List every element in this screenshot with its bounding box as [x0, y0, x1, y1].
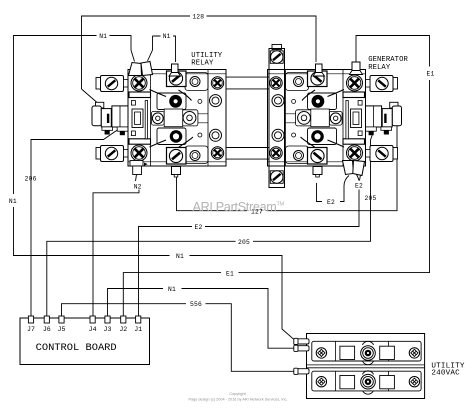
strap top	[226, 77, 269, 89]
svg-text:Page design (c) 2004 - 2016 by: Page design (c) 2004 - 2016 by ARI Netwo…	[189, 398, 288, 402]
svg-text:RELAY: RELAY	[191, 60, 214, 68]
control board	[20, 318, 150, 365]
svg-text:240VAC: 240VAC	[431, 369, 460, 377]
wire E1	[123, 36, 429, 317]
generator relay bottom lug pair	[343, 161, 365, 176]
svg-text:GENERATOR: GENERATOR	[368, 56, 408, 64]
strap bottom	[226, 148, 269, 160]
lug row1 lower	[294, 345, 309, 351]
utility relay N2 lug	[130, 161, 143, 175]
svg-text:J6: J6	[43, 326, 51, 333]
terminal bolt row1	[361, 346, 376, 361]
svg-text:206: 206	[25, 176, 37, 183]
terminal screw row2 left	[316, 377, 326, 387]
wire 206	[31, 129, 120, 317]
svg-text:205: 205	[365, 195, 377, 202]
svg-text:ARI PartStreamTM: ARI PartStreamTM	[193, 200, 285, 214]
svg-text:J4: J4	[89, 326, 97, 333]
svg-text:J1: J1	[134, 326, 142, 333]
wire 556	[62, 304, 297, 372]
wire N1 to J3	[108, 289, 297, 349]
terminal bolt row2	[361, 374, 376, 389]
svg-text:J5: J5	[58, 326, 66, 333]
utility relay top lug pair	[129, 62, 153, 76]
svg-text:J7: J7	[27, 326, 35, 333]
svg-text:Copyright: Copyright	[229, 392, 246, 396]
svg-text:556: 556	[190, 301, 202, 308]
bus bar bottom screw	[271, 171, 283, 183]
svg-text:N2: N2	[134, 183, 142, 190]
wire N1 second	[148, 36, 176, 62]
lug row2	[294, 368, 309, 374]
lug row1 upper	[294, 338, 309, 344]
svg-text:CONTROL BOARD: CONTROL BOARD	[36, 342, 117, 354]
svg-text:N1: N1	[9, 198, 17, 205]
svg-text:128: 128	[192, 13, 204, 20]
wire E2 jumper	[317, 176, 350, 202]
svg-text:J3: J3	[104, 326, 112, 333]
svg-text:J2: J2	[119, 326, 127, 333]
svg-text:N1: N1	[176, 253, 184, 260]
wire 128	[82, 16, 317, 89]
wire N1 left	[14, 36, 135, 195]
svg-text:N1: N1	[163, 33, 171, 40]
svg-text:N1: N1	[168, 286, 176, 293]
svg-text:E2: E2	[327, 199, 335, 206]
control board pins	[28, 316, 140, 323]
wire 127	[177, 124, 398, 211]
bus bar	[269, 45, 285, 188]
wire 205	[47, 129, 375, 317]
terminal screw row1 right	[409, 348, 419, 358]
wire E2 to J1	[139, 169, 362, 317]
generator relay	[268, 64, 402, 177]
wire 128 coil drop	[82, 89, 101, 106]
generator relay E1 lug	[350, 62, 363, 75]
svg-text:E1: E1	[226, 270, 234, 277]
terminal screw row2 right	[409, 377, 419, 387]
svg-text:E1: E1	[427, 71, 435, 78]
terminal screw row1 left	[316, 348, 326, 358]
svg-text:127: 127	[251, 208, 263, 215]
svg-text:RELAY: RELAY	[368, 64, 391, 72]
bus bar top screw	[271, 51, 283, 63]
utility 240vac block	[307, 334, 425, 399]
svg-text:E2: E2	[355, 183, 363, 190]
utility relay	[92, 64, 226, 177]
wire N1 left lower	[14, 207, 296, 341]
svg-text:205: 205	[238, 239, 250, 246]
svg-text:N1: N1	[99, 33, 107, 40]
svg-text:E2: E2	[195, 224, 203, 231]
wire N2	[93, 175, 139, 317]
